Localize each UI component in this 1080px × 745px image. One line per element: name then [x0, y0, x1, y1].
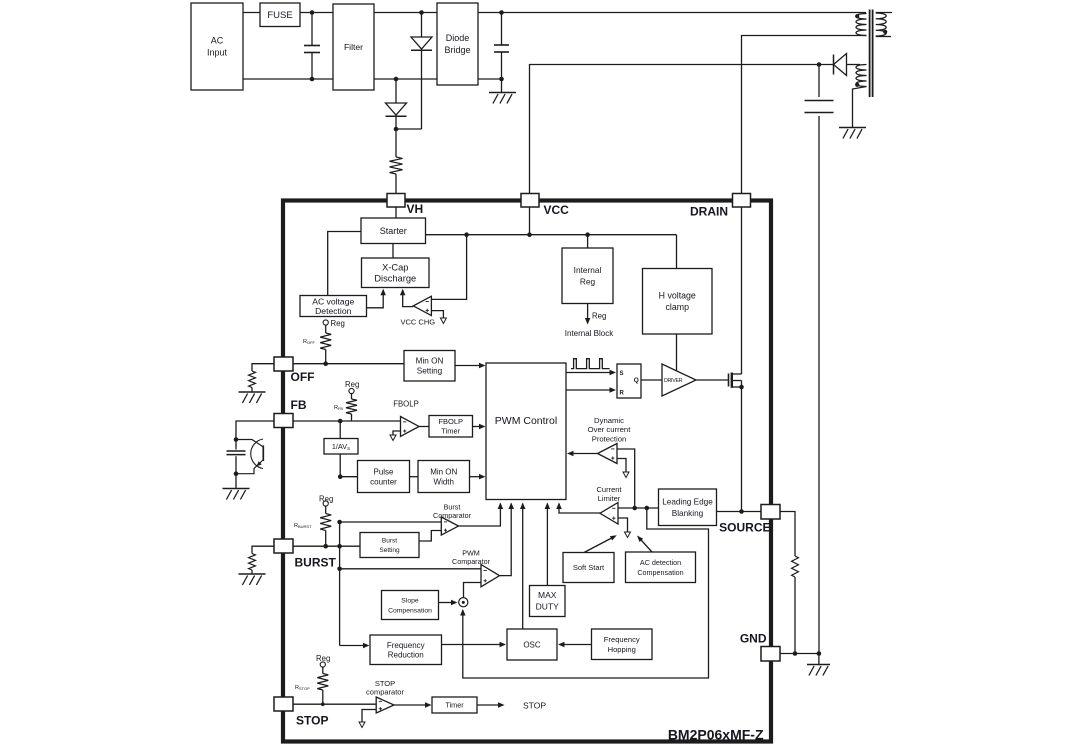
polarity dot auxiliary	[855, 83, 859, 87]
svg-text:Blanking: Blanking	[672, 509, 704, 518]
junction D2 top	[394, 77, 399, 82]
arrow acdet-to-climiter	[637, 536, 643, 543]
wire FB external	[236, 421, 274, 440]
pin VH	[387, 194, 405, 208]
label Dynamic Over current Protection	[588, 416, 632, 444]
junction MOSFET body-source	[739, 385, 744, 390]
svg-text:AC detection: AC detection	[640, 558, 681, 567]
svg-text:FB: FB	[291, 398, 307, 412]
block Slope Compensation	[382, 591, 439, 620]
svg-text:Width: Width	[434, 477, 454, 486]
junction MOSFET source-SOURCE	[739, 509, 744, 514]
wire Timer-to-STOP out	[477, 704, 498, 706]
svg-text:BM2P06xMF-Z: BM2P06xMF-Z	[668, 727, 764, 743]
diode D2 X-cap lower	[386, 79, 407, 129]
wire Filter-to-DiodeBridge top	[374, 12, 437, 14]
transformer T1 core	[870, 10, 873, 98]
arrow STOP output	[498, 702, 505, 708]
wire LEB-to-SOURCE	[717, 511, 762, 513]
svg-text:RBURST: RBURST	[294, 523, 312, 529]
svg-text:RSTOP: RSTOP	[295, 685, 310, 691]
wire VCCCHG plus input	[431, 235, 466, 300]
block AC detection Compensation	[626, 552, 696, 583]
pin VCC	[521, 194, 539, 208]
arrow into PWMControl maxduty	[545, 503, 551, 510]
wire DiodeBridge-to-transformer top	[478, 12, 866, 14]
junction climiter-OCP node	[632, 506, 637, 511]
svg-text:Slope: Slope	[401, 597, 419, 604]
wire GND-to-ground	[780, 653, 819, 655]
arrow into FrequencyReduction	[363, 643, 370, 648]
arrow Reg output down	[585, 318, 591, 325]
ground FB network	[223, 489, 250, 500]
op-amp STOP comparator	[376, 697, 394, 713]
wire rail-to-Hclamp	[676, 235, 678, 269]
svg-text:comparator: comparator	[366, 688, 404, 697]
arrow into XCap from VCCCHG	[400, 289, 406, 296]
pin DRAIN	[733, 194, 751, 208]
wire Starter-to-ACdet	[328, 232, 361, 296]
wire external BURST resistor	[252, 546, 274, 553]
wire VH-to-Starter	[395, 207, 397, 218]
resistor R-VH	[390, 129, 403, 194]
svg-text:clamp: clamp	[666, 302, 690, 312]
svg-text:MAX: MAX	[538, 590, 557, 600]
arrow into summer from ramp	[460, 609, 466, 616]
junction C1 top	[310, 10, 315, 15]
wire OCP minus ref	[617, 459, 626, 472]
wire BURST-to-BurstSetting	[293, 545, 360, 547]
wire Q-to-driver	[641, 379, 662, 381]
wire DiodeBridge-to-C2 bottom	[478, 78, 502, 80]
svg-text:Compensation: Compensation	[637, 568, 683, 577]
wire InternalReg Reg output	[587, 304, 589, 321]
polarity dot primary	[855, 14, 859, 18]
wire MinONSetting-to-PWMControl	[455, 365, 482, 367]
wire PWMControl-to-S	[566, 372, 612, 374]
junction pulse counter node	[338, 474, 343, 479]
arrow into R	[610, 387, 617, 393]
junction burst column node	[337, 544, 342, 549]
arrow into PWMControl osc	[520, 503, 526, 510]
ground BURST pin	[239, 574, 266, 585]
wire Filter-to-DiodeBridge bottom	[374, 78, 437, 80]
wire OSC-to-PWMControl	[522, 504, 524, 630]
block Diode Bridge	[437, 3, 478, 85]
svg-text:counter: counter	[370, 477, 397, 486]
arrow opto emitter	[257, 461, 262, 466]
svg-text:Timer: Timer	[445, 701, 464, 710]
label STOP comparator	[366, 679, 404, 697]
wire FB-to-FBOLP comparator	[293, 420, 401, 422]
svg-text:SOURCE: SOURCE	[719, 521, 770, 535]
arrow into PWMControl ocp	[567, 451, 574, 456]
capacitor opto filter	[227, 440, 246, 474]
wire OCP plus input	[617, 449, 635, 508]
wire VCC pin drop	[529, 207, 531, 235]
pin BURST	[274, 539, 293, 553]
pin FB	[274, 414, 293, 428]
svg-text:Reg: Reg	[345, 380, 359, 389]
svg-text:DRAIN: DRAIN	[690, 205, 728, 219]
wire external OFF resistor	[252, 364, 274, 371]
junction Rburst node	[323, 544, 328, 549]
wire DRAIN pin-to-MOSFET drain	[741, 207, 743, 374]
wire climiter plus input	[618, 507, 659, 509]
svg-text:Min ON: Min ON	[416, 357, 444, 366]
svg-text:Soft Start: Soft Start	[573, 563, 605, 572]
svg-text:Reg: Reg	[316, 654, 330, 663]
wire SOURCE-to-sense resistor	[780, 512, 795, 557]
reference arrow STOP comparator	[359, 722, 365, 728]
wire 1AVs-to-pulse counter	[340, 454, 357, 477]
wire tap-to-burst comparator	[340, 521, 442, 523]
flip-flop SR latch	[617, 364, 641, 398]
capacitor C3 VCC	[818, 65, 820, 654]
svg-text:Detection: Detection	[315, 306, 352, 316]
svg-text:Hopping: Hopping	[608, 645, 636, 654]
block Leading Edge Blanking	[659, 489, 717, 526]
svg-text:H voltage: H voltage	[659, 291, 696, 301]
ground auxiliary winding	[839, 128, 866, 139]
wire VCC rail	[426, 234, 677, 236]
reference arrow VCCCHG	[440, 318, 446, 324]
wire stopcomp-to-Timer	[394, 704, 428, 706]
wire burstcomp-to-PWMControl	[459, 504, 501, 527]
junction sense-GND	[793, 651, 798, 656]
svg-text:STOP: STOP	[296, 714, 328, 728]
ground bulk-cap	[489, 93, 516, 104]
transformer T1 secondary winding	[876, 13, 892, 37]
pin OFF	[274, 357, 293, 371]
junction opto emitter node	[234, 471, 239, 476]
wire rail-to-InternalReg	[587, 235, 589, 248]
wire FBOLPtimer-to-PWMControl	[473, 426, 482, 428]
block MAX DUTY	[530, 586, 566, 617]
arrow into XCap from ACdet	[380, 289, 386, 296]
svg-text:AC: AC	[211, 36, 224, 46]
block Min ON Width	[418, 461, 470, 493]
svg-text:Protection: Protection	[592, 435, 627, 444]
wire BurstSetting-to-comparator	[419, 531, 441, 542]
wire PWMControl-to-R	[566, 389, 612, 391]
arrow into PWMControl minONwidth	[479, 474, 486, 480]
svg-text:Over current: Over current	[588, 425, 632, 434]
diode D3 VCC rectifier	[834, 54, 861, 76]
svg-text:Reg: Reg	[592, 312, 606, 321]
wire VCCCHG minus input	[431, 311, 443, 318]
svg-text:FBOLP: FBOLP	[438, 417, 463, 426]
arrow softstart-to-climiter	[610, 535, 617, 540]
arrow into S	[610, 370, 617, 375]
wire MOSFET source down	[741, 381, 743, 512]
svg-text:Setting: Setting	[379, 547, 400, 554]
svg-text:Current: Current	[596, 485, 622, 494]
junction climiter-ramp node	[645, 506, 650, 511]
wire stopcomp minus ref	[362, 710, 376, 722]
wire OCP output	[571, 453, 598, 455]
resistor external BURST	[249, 554, 256, 575]
wire FB node down	[339, 421, 341, 439]
block FUSE	[260, 3, 300, 27]
junction node VH-top	[394, 127, 399, 132]
wire maxduty-to-PWMControl	[546, 504, 548, 586]
junction C1 bottom	[310, 77, 315, 82]
op-amp VCC CHG comparator	[413, 296, 431, 315]
wire ACdet-to-XCap	[367, 290, 384, 308]
svg-text:R: R	[620, 391, 625, 397]
svg-text:Comparator: Comparator	[433, 511, 472, 520]
resistor ROFF pull-up	[320, 320, 331, 364]
wire AC-to-Filter bottom	[243, 78, 333, 80]
transformer T1 auxiliary winding	[853, 65, 867, 128]
junction Rstop node	[321, 702, 325, 706]
arrow into PWMControl pwmcomp	[508, 503, 514, 510]
svg-text:Internal: Internal	[574, 265, 602, 275]
pin GND	[761, 647, 780, 662]
junction burst comp tap	[337, 520, 342, 525]
svg-text:X-Cap: X-Cap	[382, 263, 408, 273]
arrow into OSC right	[558, 642, 565, 647]
wire D1-to-node VH	[396, 128, 422, 130]
block Internal Reg	[562, 248, 613, 304]
svg-text:FBOLP: FBOLP	[393, 400, 419, 409]
svg-text:Comparator: Comparator	[452, 557, 491, 566]
svg-text:Input: Input	[207, 48, 228, 58]
wire softstart arrow	[584, 537, 615, 553]
block Min ON Setting	[404, 351, 455, 382]
wire C2-to-ground	[501, 79, 503, 93]
svg-text:VH: VH	[407, 202, 424, 216]
junction VCC rail pin	[527, 232, 532, 237]
svg-text:Pulse: Pulse	[373, 467, 394, 476]
ground OFF pin	[239, 392, 266, 403]
svg-text:Burst: Burst	[382, 538, 397, 545]
resistor RSTOP pull-up	[317, 662, 328, 704]
svg-text:VCC CHG: VCC CHG	[401, 318, 436, 327]
block X-Cap Discharge	[362, 258, 430, 288]
svg-text:RFB: RFB	[334, 405, 343, 411]
resistor RBURST pull-up	[320, 501, 331, 546]
svg-text:Compensation: Compensation	[388, 607, 432, 614]
svg-text:Starter: Starter	[380, 226, 407, 236]
svg-text:Internal Block: Internal Block	[565, 329, 614, 338]
svg-text:Frequency: Frequency	[387, 641, 425, 650]
wire Hclamp-to-driver	[676, 334, 678, 372]
ground GND pin	[807, 665, 830, 676]
svg-text:S: S	[620, 371, 624, 377]
arrow into PWMControl fbolp	[479, 424, 486, 429]
block AC voltage Detection	[300, 296, 367, 317]
wire summer-to-pwmcomp	[464, 583, 482, 598]
op-amp Dynamic OCP comparator	[598, 444, 618, 464]
wire slope-to-summer	[439, 602, 455, 604]
diode D1 X-cap upper	[411, 13, 432, 130]
svg-text:Limiter: Limiter	[598, 494, 621, 503]
svg-text:DRIVER: DRIVER	[664, 378, 683, 384]
junction Roff-OFF wire	[323, 361, 328, 366]
wire STOP-to-comparator	[293, 703, 376, 705]
IC outline BM2P06xMF-Z	[283, 201, 771, 742]
capacitor C1 line-filter	[311, 13, 313, 80]
svg-text:DUTY: DUTY	[536, 602, 559, 612]
svg-text:Diode: Diode	[446, 33, 470, 43]
wire VCCCHG output-to-XCap	[403, 290, 414, 307]
svg-text:PWM Control: PWM Control	[495, 415, 557, 427]
resistor external OFF	[249, 371, 256, 392]
svg-text:Setting: Setting	[417, 367, 443, 376]
junction VCC-cap node	[817, 62, 822, 67]
wire pwmcomp-to-PWMControl	[500, 504, 512, 576]
arrow into summer	[451, 600, 458, 605]
svg-text:OFF: OFF	[291, 370, 315, 384]
svg-text:STOP: STOP	[523, 701, 546, 711]
pin SOURCE	[761, 505, 780, 520]
wire Starter-to-XCap	[392, 244, 394, 259]
wire AC-to-FUSE top	[243, 12, 260, 14]
capacitor C2 bulk	[501, 13, 503, 80]
wire current limiter output	[559, 504, 600, 514]
wire freqreduction-to-OSC	[442, 644, 503, 646]
wire OFF-to-MinONSetting	[293, 363, 404, 365]
junction VCC rail reg	[585, 232, 590, 237]
label Current Limiter	[596, 485, 622, 503]
junction C2 bottom	[499, 77, 504, 82]
wire tap-to-PWM comparator	[340, 568, 481, 570]
reference arrow FBOLP	[390, 435, 396, 441]
wire FBOLP-to-timer	[419, 426, 429, 428]
op-amp Burst Comparator	[441, 517, 458, 535]
svg-text:OSC: OSC	[523, 640, 541, 649]
svg-text:ROFF: ROFF	[303, 339, 316, 345]
svg-text:FUSE: FUSE	[267, 10, 292, 21]
arrow into PWMControl burst	[498, 503, 504, 510]
svg-text:Q: Q	[634, 377, 639, 384]
wire freq column	[340, 645, 366, 647]
svg-text:Leading Edge: Leading Edge	[662, 497, 713, 506]
svg-text:Timer: Timer	[441, 427, 460, 436]
junction FB divider node	[338, 419, 343, 424]
summing node	[459, 598, 468, 607]
block OSC	[507, 629, 557, 660]
wire FBOLP minus ref	[393, 431, 401, 435]
svg-text:Frequency: Frequency	[604, 635, 640, 644]
wire driver-to-gate	[696, 379, 729, 381]
label PWM Comparator	[452, 549, 491, 567]
svg-text:Reg: Reg	[331, 319, 345, 328]
wire FUSE-to-Filter	[300, 12, 333, 14]
arrow into PWMControl minON	[479, 363, 486, 368]
wire D3-to-VCC	[530, 65, 834, 194]
junction D1 top	[419, 10, 424, 15]
pin STOP	[274, 697, 293, 711]
svg-text:Reg: Reg	[580, 276, 596, 286]
wire primary-to-DRAIN	[742, 36, 867, 194]
arrow into Timer	[425, 702, 432, 708]
arrow into OSC left	[500, 642, 507, 647]
wire GND node drop	[818, 654, 820, 665]
svg-text:Reg: Reg	[319, 495, 333, 504]
block H voltage clamp	[643, 269, 713, 335]
arrow into PWMControl climiter	[556, 503, 562, 510]
wire climiter minus ref	[618, 518, 628, 532]
reference arrow current limiter	[625, 532, 631, 538]
junction C3-GND	[817, 651, 822, 656]
op-amp DRIVER	[662, 364, 696, 396]
polarity dot secondary	[883, 30, 887, 34]
junction opto collector	[234, 437, 239, 442]
block Soft Start	[563, 553, 614, 583]
label Burst Comparator	[433, 503, 472, 521]
svg-text:AC voltage: AC voltage	[312, 296, 354, 306]
wire pulsecounter-to-minONwidth	[410, 476, 419, 478]
svg-text:Dynamic: Dynamic	[594, 416, 624, 425]
wire ramp feedback loop	[463, 508, 709, 678]
svg-text:BURST: BURST	[295, 556, 337, 570]
block Frequency Hopping	[592, 629, 653, 660]
svg-text:Filter: Filter	[344, 42, 363, 52]
block FBOLP Timer	[429, 416, 473, 438]
op-amp FBOLP comparator	[401, 417, 420, 437]
block Starter	[361, 218, 426, 244]
transistor photo-coupler	[236, 439, 263, 474]
op-amp Current Limiter comparator	[600, 503, 618, 525]
svg-text:Min ON: Min ON	[430, 467, 457, 476]
block Frequency Reduction	[370, 635, 442, 665]
svg-text:Discharge: Discharge	[374, 274, 416, 284]
pulse waveform glyph	[571, 359, 610, 369]
block PWM Control	[486, 363, 566, 500]
wire opto-to-ground	[235, 474, 237, 489]
op-amp PWM Comparator	[481, 565, 500, 587]
wire acdet arrow	[639, 538, 652, 553]
transformer T1 primary winding	[856, 14, 867, 36]
resistor RFB pull-up	[346, 388, 357, 421]
block 1/AVs divider	[324, 439, 358, 455]
wire burst column vertical	[339, 522, 341, 646]
junction C2 top	[499, 10, 504, 15]
svg-text:VCC: VCC	[544, 203, 570, 217]
transistor Q1 power MOSFET	[729, 373, 742, 388]
block AC Input	[191, 3, 243, 90]
svg-text:Bridge: Bridge	[444, 45, 470, 55]
wire freqhopping-to-OSC	[561, 644, 592, 646]
block Filter	[333, 4, 374, 90]
block Burst Setting	[360, 533, 419, 558]
block Timer	[432, 697, 477, 713]
resistor current sense	[792, 556, 799, 654]
junction VCC rail comp	[464, 232, 469, 237]
reference arrow OCP	[623, 472, 629, 478]
block Pulse counter	[358, 461, 410, 493]
svg-text:GND: GND	[740, 632, 767, 646]
junction pwm comp tap	[337, 567, 342, 572]
svg-text:Reduction: Reduction	[388, 650, 424, 659]
wire minONwidth-to-PWMControl	[470, 476, 482, 478]
